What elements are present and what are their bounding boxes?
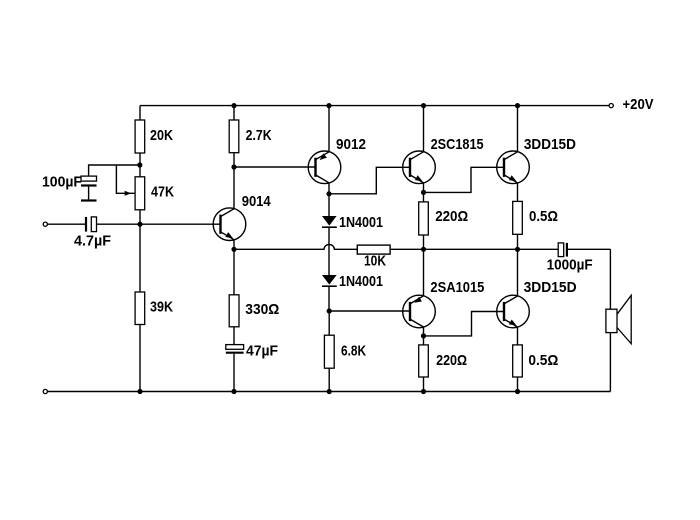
wire 9012 collector to 2SC1815 base	[329, 167, 410, 194]
svg-text:47µF: 47µF	[246, 343, 278, 360]
node output junction	[515, 247, 520, 252]
node 9012 collector junction	[326, 191, 331, 196]
node 2.7K/9012-base/9014-collector	[231, 164, 236, 169]
svg-text:3DD15D: 3DD15D	[524, 136, 576, 153]
speaker LS	[606, 295, 631, 343]
node top rail / 3DD15D collector	[515, 103, 520, 108]
wire 0.5R bottom to rail	[517, 377, 519, 392]
capacitor 47uF	[226, 345, 244, 392]
transistor Q3 2SC1815	[403, 151, 436, 184]
svg-text:100µF: 100µF	[42, 174, 82, 191]
wire speaker branch down	[609, 249, 611, 391]
svg-text:2.7K: 2.7K	[246, 127, 272, 144]
wire input node down to 39K	[139, 224, 141, 292]
wire emitter node to 220R top	[423, 192, 425, 202]
wire 9012 collector	[328, 183, 330, 194]
wire 2SA1015 collector	[423, 327, 425, 336]
transistor Q4 3DD15D top	[497, 151, 530, 184]
wire 10K to mid node and output node	[390, 248, 558, 250]
svg-text:2SC1815: 2SC1815	[431, 136, 484, 153]
node 9014 emitter junction	[231, 247, 236, 252]
wire 9014 emitter to 330R	[233, 249, 235, 294]
transistor Q1 9014	[213, 208, 246, 241]
resistor 10K	[357, 245, 390, 254]
wiper arrow head	[125, 191, 132, 196]
wire C1 to 9014 base	[97, 223, 221, 225]
wire 0.5R to output node	[517, 234, 519, 249]
svg-text:9014: 9014	[242, 193, 272, 210]
resistor 220R bottom	[419, 345, 429, 377]
svg-text:2SA1015: 2SA1015	[430, 279, 484, 296]
svg-text:0.5Ω: 0.5Ω	[528, 352, 558, 369]
node top rail / 2.7K	[231, 103, 236, 108]
svg-text:1N4001: 1N4001	[339, 273, 383, 290]
wire 1000uF to speaker branch	[567, 248, 611, 250]
wire 2SC1815 emitter to 3DD15D base	[424, 167, 505, 192]
wire node to 2SA1015 base	[329, 310, 410, 312]
svg-text:330Ω: 330Ω	[245, 301, 279, 318]
wire 220R bottom to rail	[423, 377, 425, 392]
svg-text:1000µF: 1000µF	[547, 257, 593, 274]
node 2SA1015 collector junction	[421, 333, 426, 338]
wire 20K to 47K	[139, 153, 141, 177]
capacitor C4 1000uF	[558, 243, 567, 257]
node top rail / 2SC1815 collector	[421, 103, 426, 108]
wire top supply rail	[140, 105, 609, 107]
wire node to 9012 base	[234, 166, 316, 168]
svg-text:39K: 39K	[150, 298, 173, 315]
diode D2 1N4001	[322, 275, 337, 286]
wire 2.7K bottom	[233, 153, 235, 167]
wire 6.8K to bottom rail	[328, 368, 330, 391]
capacitor C1 4.7uF	[86, 217, 97, 232]
wire 39K to bottom rail	[139, 325, 141, 392]
wire rail to 2SC1815 collector	[423, 106, 425, 152]
resistor 6.8K	[324, 335, 334, 368]
resistor 39K	[135, 292, 145, 325]
wire 3DD15D emitter to 0.5R	[517, 183, 519, 202]
svg-text:220Ω: 220Ω	[435, 208, 468, 225]
wire D2 to 6.8K node	[328, 286, 330, 311]
node bottom rail / 0.5R	[515, 389, 520, 394]
resistor 2.7K	[229, 120, 239, 153]
wire 47K to input node	[139, 210, 141, 224]
wire rail to 3DD15D collector	[517, 106, 519, 152]
wire from rail down to 20K	[139, 106, 141, 120]
transistor Q5 2SA1015	[403, 295, 436, 328]
wire 47K wiper arm	[116, 165, 135, 193]
svg-text:+20V: +20V	[623, 96, 654, 113]
node 20K/47K junction	[137, 162, 142, 167]
wire 3DD15D bottom emitter to 0.5R	[517, 327, 519, 345]
svg-text:47K: 47K	[151, 184, 174, 201]
node bottom rail / 220R	[421, 389, 426, 394]
node mid rail junction	[421, 247, 426, 252]
node bottom rail / 47uF	[231, 389, 236, 394]
diode D1 1N4001	[322, 194, 337, 227]
wire collector node to 220R bottom	[423, 336, 425, 345]
wire mid node to 2SA1015 emitter	[423, 249, 425, 295]
wire node to 100uF	[89, 165, 140, 176]
node 2SC1815 emitter junction	[421, 190, 426, 195]
wire input terminal to C1	[47, 223, 85, 225]
node bottom rail / 39K	[137, 389, 142, 394]
wire node to 6.8K	[328, 311, 330, 335]
svg-text:6.8K: 6.8K	[341, 343, 366, 360]
resistor 20K	[135, 120, 145, 153]
node bottom rail / 6.8K	[327, 389, 332, 394]
transistor Q2 9012	[308, 151, 341, 184]
capacitor C 100uF	[81, 176, 97, 200]
wire 9014 emitter	[233, 240, 235, 250]
svg-text:4.7µF: 4.7µF	[74, 232, 111, 249]
wire bottom rail	[47, 391, 610, 393]
node top rail / 9012 emitter	[326, 103, 331, 108]
svg-text:1N4001: 1N4001	[339, 214, 383, 231]
wire 2SA1015 collector to 3DD15D bottom base	[424, 312, 505, 336]
resistor 220R top	[419, 202, 429, 235]
resistor 330R	[229, 295, 239, 327]
node D2 / 6.8K / 2SA1015 base	[327, 308, 332, 313]
terminal input	[43, 222, 47, 226]
node input junction	[137, 222, 142, 227]
transistor Q6 3DD15D bottom	[497, 295, 530, 328]
wire D1 to D2	[328, 227, 330, 275]
svg-text:9012: 9012	[336, 136, 366, 153]
wire feedback line with hop over diode chain	[234, 245, 357, 250]
svg-text:0.5Ω: 0.5Ω	[529, 208, 558, 225]
terminal bottom left	[43, 389, 47, 393]
wire rail to 9012 emitter	[328, 106, 330, 152]
svg-text:20K: 20K	[150, 127, 173, 144]
svg-text:10K: 10K	[364, 253, 386, 270]
terminal +20V	[609, 104, 613, 108]
resistor 0.5R bottom	[513, 345, 523, 377]
resistor 47K (preset)	[135, 177, 145, 210]
svg-text:3DD15D: 3DD15D	[524, 279, 577, 296]
wire 330R to 47uF	[233, 327, 235, 345]
wire output node to 3DD15D bottom collector	[517, 249, 519, 296]
wire rail to 2.7K	[233, 106, 235, 120]
resistor 0.5R top	[513, 201, 523, 234]
wire 2SC1815 emitter	[423, 183, 425, 193]
wire 220R to mid node	[423, 235, 425, 249]
wire node down to 9014 collector	[233, 167, 235, 209]
svg-text:220Ω: 220Ω	[436, 352, 467, 369]
